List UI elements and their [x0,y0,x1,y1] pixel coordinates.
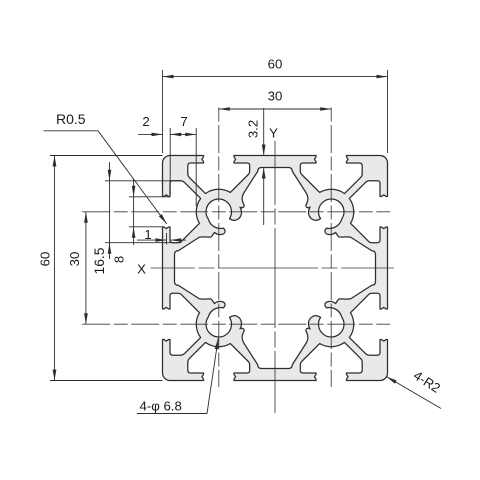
svg-text:X: X [137,262,146,277]
dimension 1 [166,233,168,245]
svg-text:1: 1 [144,227,151,242]
dimension 2 [138,133,163,135]
dimension 60 left [50,155,163,157]
svg-text:60: 60 [268,57,283,72]
dimension 60 top [162,70,164,153]
svg-text:30: 30 [67,252,82,267]
svg-text:7: 7 [180,114,187,129]
svg-text:60: 60 [38,252,53,267]
dimension 8 [129,196,170,198]
svg-text:30: 30 [268,89,283,104]
dimension 30 left [85,212,87,324]
extrusion profile body [163,156,388,381]
svg-text:8: 8 [112,256,127,263]
slot centerline vertical left [218,105,220,388]
slot centerline horizontal top [81,211,390,213]
slot centerline vertical right [330,105,332,388]
slot centerline horizontal bottom [81,323,390,325]
svg-text:2: 2 [142,114,149,129]
Y axis centerline [274,141,276,413]
X axis centerline [151,267,395,269]
dimension 3.2 [263,108,265,156]
svg-text:3.2: 3.2 [246,120,261,138]
svg-text:Y: Y [269,126,278,141]
svg-text:4-φ 6.8: 4-φ 6.8 [140,399,182,414]
dimension 16.5 [105,180,181,182]
svg-text:R0.5: R0.5 [56,111,86,127]
svg-text:16.5: 16.5 [92,247,107,274]
dimension 7 [169,128,171,195]
label 4-R2 [386,377,441,409]
dimension 30 top [219,108,331,110]
